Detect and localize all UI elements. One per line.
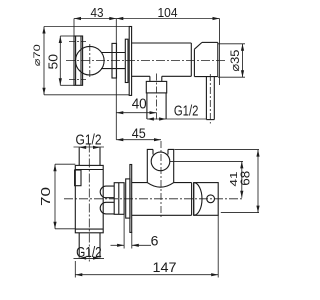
bottom port width arrows [79,256,100,259]
dimension 43 [74,19,116,37]
dimension d35 [218,44,245,77]
escutcheon ring A [112,43,117,78]
dimension 68 [175,150,260,213]
svg-text:68: 68 [238,171,253,186]
neck between ball and escutcheon [101,53,125,69]
wall rosette plate bottom view [130,165,132,233]
svg-text:G1/2: G1/2 [76,133,102,149]
escutcheon ring B [125,39,128,82]
dimension G1/2 outlet width arrows [147,117,166,120]
set screw tab inside block [75,170,81,186]
svg-text:70: 70 [38,187,53,206]
valve body block [75,165,103,232]
dimension 45 [116,139,161,141]
dimension d70 [44,27,129,95]
svg-text:147: 147 [153,259,177,275]
dimension 6 (plate thickness) [111,214,152,248]
outlet stub below body: neck [150,76,162,81]
spindle housing [114,183,124,215]
body tube [132,43,192,76]
dimension 104 [116,19,219,86]
svg-text:104: 104 [158,5,178,20]
svg-text:50: 50 [45,54,60,69]
wire: port axis dashes on knob disc [69,42,86,80]
wire: ball vertical centerline [89,44,91,78]
wire: shared wall extension line [115,19,117,140]
holder arm [132,183,194,216]
ball knob [76,46,105,75]
dimension 40 [116,112,156,114]
svg-text:G1/2: G1/2 [174,104,199,120]
svg-text:6: 6 [151,232,159,248]
outlet flange [146,81,166,93]
end cap (d35) with chamfer [194,42,217,76]
dimension 41 [170,161,243,197]
svg-text:⌀70: ⌀70 [32,44,43,66]
wire: hose connector centerline [209,74,211,124]
top port width arrows [79,146,100,149]
knob disc (50 face plate) [74,36,83,85]
wire: bottom view horizontal centerline [64,198,244,200]
screw hole in holder block [207,195,215,203]
holder clip hole [151,152,170,171]
top inlet port G1/2 [79,147,100,165]
cartridge o-ring bumps [100,186,114,214]
svg-text:43: 43 [91,5,104,20]
wall mount block of holder [194,183,219,216]
outlet threaded pipe [147,93,166,119]
wire: outlet centerline [156,74,158,122]
hose connector below cap [206,77,214,120]
dimension 50 [60,36,74,85]
wire: valve vertical centerline [88,144,90,264]
dimension 70 [55,164,75,229]
svg-text:⌀35: ⌀35 [228,49,242,71]
wire: cup vertical centerline [160,141,162,218]
shower holder cup [147,149,173,187]
wire: main horizontal centerline of top view [66,60,226,62]
bottom port G1/2 [79,233,100,258]
svg-text:45: 45 [132,125,146,141]
wall rosette plate (d70) top view [129,27,131,96]
escutcheon ring bottom view [126,179,130,218]
dimension 147 [75,215,218,277]
svg-text:40: 40 [132,96,147,112]
